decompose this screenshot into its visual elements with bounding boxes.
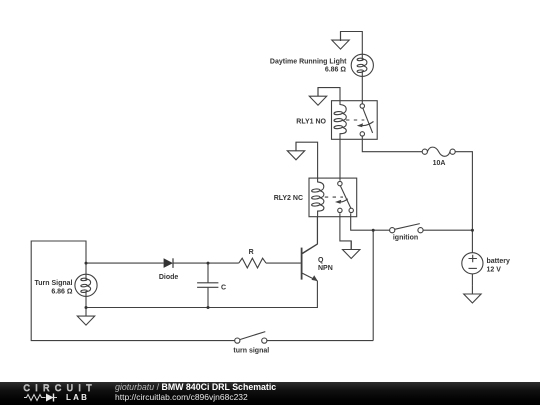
svg-text:6.86 Ω: 6.86 Ω <box>51 289 73 296</box>
svg-text:RLY1 NO: RLY1 NO <box>296 119 326 126</box>
svg-text:Diode: Diode <box>159 274 179 281</box>
svg-text:12 V: 12 V <box>487 266 502 273</box>
svg-text:10A: 10A <box>433 160 446 167</box>
svg-text:turn signal: turn signal <box>233 347 269 354</box>
svg-text:Q: Q <box>318 257 324 264</box>
svg-text:Daytime Running Light: Daytime Running Light <box>270 58 347 65</box>
svg-text:Turn Signal: Turn Signal <box>35 280 73 287</box>
svg-text:RLY2 NC: RLY2 NC <box>274 195 303 202</box>
svg-text:NPN: NPN <box>318 265 333 272</box>
svg-text:C: C <box>221 285 226 292</box>
svg-text:ignition: ignition <box>393 235 418 242</box>
svg-text:R: R <box>249 249 254 256</box>
svg-text:6.86 Ω: 6.86 Ω <box>325 66 347 73</box>
svg-text:battery: battery <box>487 258 510 265</box>
